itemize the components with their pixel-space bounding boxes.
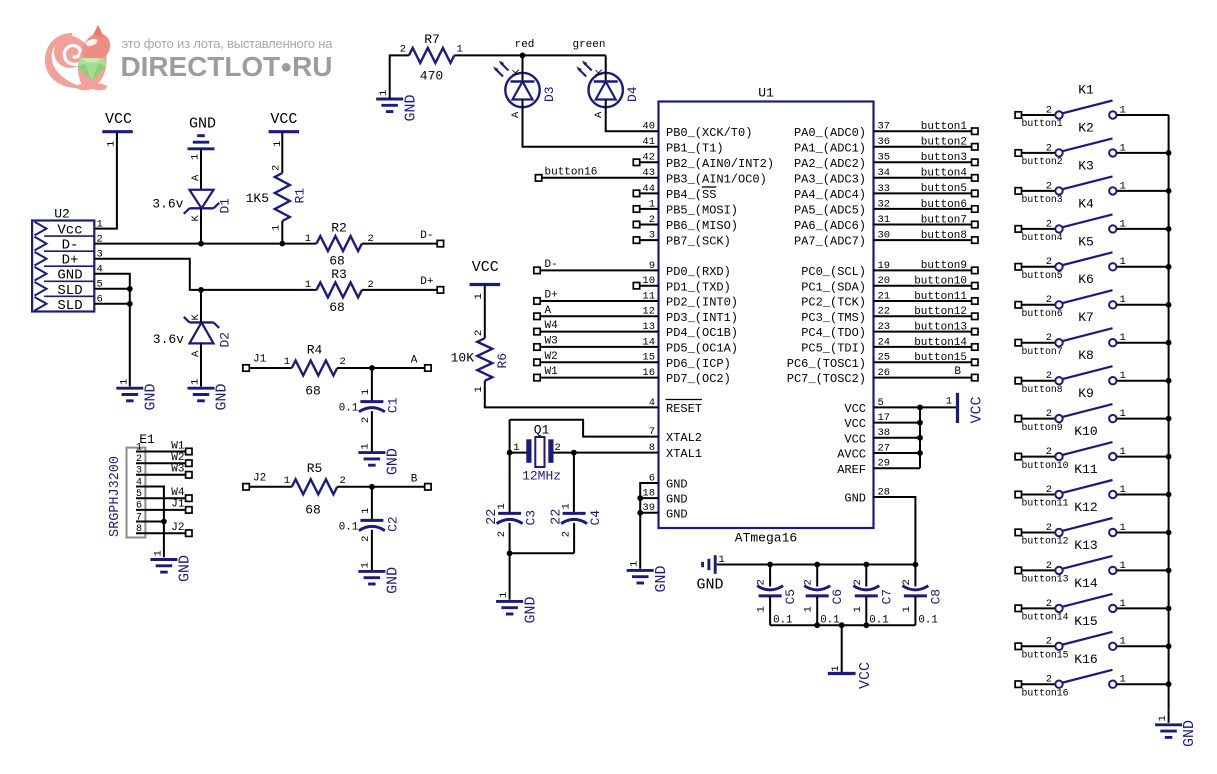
- svg-text:GND: GND: [696, 577, 723, 594]
- svg-text:button10: button10: [914, 276, 967, 288]
- wire node D- to U1 pin 9: [534, 259, 659, 274]
- svg-text:R5: R5: [307, 461, 323, 476]
- wire R3 to node D+: [362, 276, 444, 293]
- svg-text:Q1: Q1: [534, 423, 550, 438]
- wire E1 pin2 to node W2: [136, 452, 192, 466]
- svg-text:GND: GND: [844, 492, 866, 506]
- wire GND to D1 anode: [200, 149, 202, 190]
- svg-text:GND: GND: [523, 596, 540, 623]
- svg-text:R7: R7: [424, 32, 440, 47]
- svg-text:W1: W1: [171, 440, 185, 452]
- svg-text:K15: K15: [1074, 614, 1097, 629]
- svg-text:PD7_(OC2): PD7_(OC2): [666, 372, 731, 386]
- svg-text:GND: GND: [385, 448, 402, 475]
- wire node button3 from U1 pin 35: [874, 152, 979, 165]
- svg-text:PD0_(RXD): PD0_(RXD): [666, 265, 731, 279]
- svg-text:VCC: VCC: [969, 396, 986, 423]
- svg-text:K12: K12: [1074, 500, 1097, 515]
- svg-text:2: 2: [360, 417, 372, 423]
- svg-text:3.6v: 3.6v: [153, 332, 184, 347]
- svg-text:W3: W3: [171, 464, 184, 476]
- svg-text:D+: D+: [545, 290, 558, 302]
- svg-text:PD6_(ICP): PD6_(ICP): [666, 357, 731, 371]
- svg-text:PA3_(ADC3): PA3_(ADC3): [794, 172, 866, 186]
- switch K10 (button10): [1015, 424, 1169, 471]
- svg-text:C5: C5: [783, 589, 798, 605]
- svg-text:2: 2: [1046, 484, 1052, 496]
- svg-text:R6: R6: [495, 353, 510, 369]
- svg-text:A: A: [510, 111, 522, 118]
- op-amp U1 ATmega16 microcontroller box with pin names and numbers: [642, 86, 890, 546]
- svg-text:1: 1: [457, 43, 463, 55]
- svg-text:PA7_(ADC7): PA7_(ADC7): [794, 235, 866, 249]
- svg-text:1: 1: [305, 233, 311, 245]
- wire D+ to D2 cathode: [200, 290, 202, 323]
- wire U1 GND pins 6,18,39 to ground: [637, 483, 658, 569]
- svg-text:PA5_(ADC5): PA5_(ADC5): [794, 204, 866, 218]
- svg-text:W1: W1: [545, 366, 559, 378]
- wire E1 pin1 to node W1: [136, 440, 192, 454]
- switch K13 (button13): [1015, 538, 1169, 585]
- svg-text:K: K: [594, 69, 606, 76]
- svg-text:K: K: [511, 69, 523, 76]
- switch K2 (button2): [1015, 120, 1169, 167]
- wire unconnected stub at U1 pin 44: [633, 190, 658, 196]
- svg-text:PC6_(TOSC1): PC6_(TOSC1): [787, 357, 866, 371]
- svg-text:button5: button5: [921, 183, 967, 195]
- wire D3 cathode from red node: [522, 55, 524, 73]
- wire crystal to U1 XTAL1: [507, 450, 659, 456]
- svg-text:button14: button14: [1022, 612, 1069, 623]
- svg-text:button12: button12: [1022, 536, 1069, 547]
- svg-text:3.6v: 3.6v: [152, 197, 183, 212]
- svg-text:button4: button4: [1022, 232, 1063, 243]
- svg-text:K10: K10: [1074, 424, 1097, 439]
- svg-text:PC4_(TDO): PC4_(TDO): [801, 326, 866, 340]
- wire node button10 from U1 pin 20: [874, 276, 979, 289]
- switch K12 (button12): [1015, 500, 1169, 547]
- svg-text:PA2_(ADC2): PA2_(ADC2): [794, 157, 866, 171]
- wire U1 VCC/AVCC/AREF bus: [874, 405, 923, 469]
- svg-text:0.1: 0.1: [339, 403, 358, 415]
- wire node W4 to U1 pin 13: [534, 320, 659, 335]
- svg-text:22: 22: [485, 509, 500, 525]
- svg-text:W2: W2: [545, 351, 558, 363]
- svg-text:B: B: [411, 473, 418, 485]
- svg-text:2: 2: [1046, 598, 1052, 610]
- svg-text:D3: D3: [542, 86, 557, 102]
- svg-text:2: 2: [340, 475, 346, 487]
- svg-text:button15: button15: [914, 352, 967, 364]
- power VCC symbol (U2 pin1 net): [102, 111, 133, 147]
- svg-text:PD4_(OC1B): PD4_(OC1B): [666, 326, 738, 340]
- svg-text:R2: R2: [331, 221, 347, 236]
- switch K1 (button1): [1015, 83, 1169, 130]
- svg-text:PA1_(ADC1): PA1_(ADC1): [794, 141, 866, 155]
- svg-text:2: 2: [1046, 256, 1052, 268]
- svg-text:12MHz: 12MHz: [522, 469, 561, 484]
- svg-text:1: 1: [153, 550, 165, 556]
- svg-text:2: 2: [1046, 408, 1052, 420]
- svg-text:VCC: VCC: [844, 432, 866, 446]
- wire node button9 from U1 pin 19: [874, 260, 979, 273]
- svg-text:2: 2: [1046, 674, 1052, 686]
- svg-text:K7: K7: [1078, 310, 1094, 325]
- svg-text:GND: GND: [653, 565, 670, 592]
- wire node button8 from U1 pin 30: [874, 230, 979, 243]
- svg-text:1: 1: [1157, 715, 1169, 721]
- svg-text:2: 2: [1046, 104, 1052, 116]
- wire U2 GND/SLD net to ground: [94, 274, 132, 387]
- svg-text:VCC: VCC: [857, 662, 874, 689]
- switch K3 (button3): [1015, 158, 1169, 205]
- svg-text:A: A: [593, 111, 605, 118]
- wire D2 anode to ground: [200, 343, 202, 386]
- svg-text:K8: K8: [1078, 348, 1094, 363]
- svg-text:K9: K9: [1078, 386, 1094, 401]
- svg-text:2: 2: [1046, 636, 1052, 648]
- wire switch common bus to ground: [1166, 115, 1172, 723]
- LED D4 green: [576, 61, 640, 119]
- wire U1 pin28 to capacitor rail: [874, 497, 916, 565]
- capacitor C1 0.1: [339, 368, 401, 452]
- wire R2 to node D-: [362, 230, 444, 247]
- svg-text:C2: C2: [386, 516, 401, 532]
- power VCC symbol (R6 top): [470, 259, 501, 300]
- svg-text:button3: button3: [921, 152, 967, 164]
- wire node button16 to U1 PB3: [535, 167, 658, 181]
- svg-text:1: 1: [473, 293, 485, 299]
- wire XTAL2 step: [510, 420, 659, 437]
- svg-text:PB6_(MISO): PB6_(MISO): [666, 219, 738, 233]
- svg-text:K11: K11: [1074, 462, 1098, 477]
- svg-text:button1: button1: [921, 121, 968, 133]
- resistor R2 68: [305, 221, 374, 269]
- wire R7 pin2 to ground: [390, 55, 409, 99]
- svg-text:PB3_(AIN1/OC0): PB3_(AIN1/OC0): [666, 172, 767, 186]
- capacitor C3 22: [485, 503, 538, 553]
- svg-text:PC7_(TOSC2): PC7_(TOSC2): [787, 372, 866, 386]
- wire LED anode rail with nodes red and green: [454, 39, 605, 58]
- svg-text:1K5: 1K5: [246, 191, 269, 206]
- svg-text:R4: R4: [307, 342, 323, 357]
- svg-text:GND: GND: [1181, 720, 1198, 747]
- svg-text:1: 1: [360, 562, 372, 568]
- svg-text:C8: C8: [928, 589, 943, 605]
- ground symbol (switch bus): [1155, 715, 1198, 747]
- svg-text:GND: GND: [666, 493, 688, 507]
- svg-text:button5: button5: [1022, 270, 1063, 281]
- svg-text:2: 2: [1046, 370, 1052, 382]
- svg-text:0.1: 0.1: [918, 615, 937, 627]
- svg-text:2: 2: [1046, 218, 1052, 230]
- svg-text:VCC: VCC: [844, 417, 866, 431]
- svg-text:K16: K16: [1074, 652, 1097, 667]
- svg-text:VCC: VCC: [105, 111, 132, 128]
- switch K14 (button14): [1015, 576, 1169, 623]
- svg-text:PD3_(INT1): PD3_(INT1): [666, 311, 738, 325]
- svg-text:GND: GND: [214, 383, 231, 410]
- svg-text:C4: C4: [588, 510, 603, 526]
- wire E1 pin6 to node J1: [136, 499, 192, 513]
- LED D3 red: [493, 61, 557, 119]
- svg-text:PB4_(SS: PB4_(SS: [666, 188, 716, 202]
- svg-text:PC5_(TDI): PC5_(TDI): [801, 342, 866, 356]
- svg-text:D-: D-: [545, 259, 558, 271]
- connector E1 SRGPHJ3200: [108, 432, 155, 538]
- logo squirrel mascot: [45, 25, 110, 90]
- svg-text:1: 1: [360, 389, 372, 395]
- ground symbol (C2): [358, 562, 401, 594]
- switch K5 (button5): [1015, 234, 1169, 281]
- svg-text:GND: GND: [177, 555, 194, 582]
- wire node J1 to R4: [243, 354, 292, 372]
- crystal Q1 12MHz: [510, 423, 574, 484]
- wire cap bank top rail (GND): [717, 562, 919, 568]
- diode D1 zener 3.6v: [152, 174, 232, 222]
- svg-text:D-: D-: [420, 230, 433, 242]
- svg-text:SRGPHJ3200: SRGPHJ3200: [108, 456, 123, 537]
- svg-text:2: 2: [901, 579, 913, 585]
- wire node D+ to U1 pin 11: [534, 290, 659, 305]
- svg-text:SLD: SLD: [57, 298, 82, 314]
- svg-text:DIRECTLOT●RU: DIRECTLOT●RU: [121, 51, 333, 82]
- svg-text:1: 1: [560, 503, 572, 509]
- svg-text:button8: button8: [1022, 384, 1063, 395]
- wire U2 pin1 to VCC: [94, 132, 117, 229]
- svg-text:button12: button12: [914, 306, 967, 318]
- svg-text:1: 1: [803, 606, 815, 612]
- svg-text:button3: button3: [1022, 194, 1063, 205]
- svg-text:1: 1: [360, 508, 372, 514]
- svg-text:2: 2: [496, 531, 508, 537]
- svg-text:XTAL1: XTAL1: [666, 447, 702, 461]
- wire R5 to node B: [337, 473, 431, 490]
- wire node button5 from U1 pin 33: [874, 183, 979, 196]
- svg-text:W4: W4: [171, 487, 185, 499]
- svg-text:button9: button9: [1022, 422, 1063, 433]
- svg-text:2: 2: [271, 165, 283, 171]
- svg-text:W4: W4: [545, 320, 559, 332]
- switch K15 (button15): [1015, 614, 1169, 661]
- svg-text:J2: J2: [171, 522, 184, 534]
- svg-text:ATmega16: ATmega16: [735, 531, 797, 546]
- svg-text:2: 2: [1046, 294, 1052, 306]
- wire node W3 to U1 pin 14: [534, 335, 659, 350]
- svg-text:K4: K4: [1078, 196, 1094, 211]
- wire E1 pins 4,7 to ground: [136, 487, 167, 558]
- svg-text:PD5_(OC1A): PD5_(OC1A): [666, 342, 738, 356]
- svg-text:D1: D1: [218, 198, 233, 214]
- svg-text:GND: GND: [403, 94, 420, 121]
- wire node button7 from U1 pin 31: [874, 214, 979, 227]
- wire D4 anode to PB0: [606, 107, 659, 131]
- svg-text:VCC: VCC: [270, 111, 297, 128]
- svg-text:68: 68: [305, 502, 321, 517]
- svg-text:PA0_(ADC0): PA0_(ADC0): [794, 126, 866, 140]
- svg-text:button7: button7: [921, 214, 967, 226]
- svg-text:button2: button2: [921, 137, 967, 149]
- svg-text:C1: C1: [386, 397, 401, 413]
- svg-text:PB5_(MOSI): PB5_(MOSI): [666, 204, 738, 218]
- wire E1 pin5 to node W4: [136, 487, 192, 501]
- svg-text:1: 1: [190, 154, 202, 160]
- wire crystal right leg to C4: [573, 453, 575, 514]
- switch K9 (button9): [1015, 386, 1169, 433]
- svg-text:button9: button9: [921, 260, 967, 272]
- capacitor C7 0.1: [852, 565, 895, 627]
- svg-text:U1: U1: [758, 86, 774, 101]
- wire crystal left leg: [509, 420, 511, 514]
- ground symbol (C3/C4): [496, 592, 539, 624]
- svg-text:470: 470: [420, 69, 443, 84]
- svg-text:VCC: VCC: [844, 402, 866, 416]
- wire unconnected stub at U1 pin 1: [633, 206, 658, 212]
- svg-text:22: 22: [550, 509, 565, 525]
- wire node J2 to R5: [243, 472, 292, 490]
- svg-text:2: 2: [360, 536, 372, 542]
- svg-text:VCC: VCC: [472, 259, 499, 276]
- resistor R4 68: [284, 342, 346, 398]
- svg-text:PA6_(ADC6): PA6_(ADC6): [794, 219, 866, 233]
- ground symbol above D1 (inverted): [188, 116, 217, 161]
- svg-text:PB1_(T1): PB1_(T1): [666, 141, 724, 155]
- svg-text:button11: button11: [914, 291, 967, 303]
- svg-text:button6: button6: [921, 199, 967, 211]
- wire unconnected stub at U1 pin 2: [633, 221, 658, 227]
- wire E1 pin3 to node W3: [136, 464, 192, 478]
- svg-text:W2: W2: [171, 452, 184, 464]
- ground symbol (U2 shield net): [116, 379, 159, 411]
- ground symbol (D2): [188, 379, 231, 411]
- svg-text:2: 2: [1046, 142, 1052, 154]
- svg-text:2: 2: [1046, 560, 1052, 572]
- wire node button4 from U1 pin 34: [874, 168, 979, 181]
- svg-text:C7: C7: [879, 589, 894, 605]
- svg-text:green: green: [572, 39, 605, 51]
- resistor R1 1K5: [246, 132, 308, 244]
- svg-text:68: 68: [329, 300, 345, 315]
- wire R4 to node A: [337, 355, 431, 372]
- svg-text:R3: R3: [331, 267, 347, 282]
- svg-text:button4: button4: [921, 168, 968, 180]
- svg-text:68: 68: [305, 384, 321, 399]
- svg-text:2: 2: [1046, 446, 1052, 458]
- capacitor C4 22: [550, 503, 604, 553]
- svg-text:1: 1: [901, 606, 913, 612]
- svg-text:PC1_(SDA): PC1_(SDA): [801, 280, 866, 294]
- wire node B from U1 pin 26: [874, 366, 979, 381]
- svg-text:C6: C6: [830, 589, 845, 605]
- svg-text:2: 2: [473, 330, 485, 336]
- resistor R3 68: [305, 267, 374, 315]
- wire D1 cathode to D- net: [200, 208, 202, 243]
- wire E1 pin8 to node J2: [136, 522, 192, 536]
- wire unconnected stub at U1 pin 3: [633, 237, 658, 243]
- svg-text:B: B: [954, 366, 961, 378]
- svg-text:1: 1: [271, 225, 283, 231]
- ground symbol (R7): [376, 90, 419, 122]
- svg-text:W3: W3: [545, 335, 558, 347]
- svg-text:XTAL2: XTAL2: [666, 431, 702, 445]
- svg-text:1: 1: [473, 386, 485, 392]
- svg-text:1: 1: [378, 90, 390, 96]
- svg-text:D+: D+: [420, 276, 433, 288]
- svg-text:PB7_(SCK): PB7_(SCK): [666, 235, 731, 249]
- svg-text:A: A: [545, 305, 552, 317]
- power VCC symbol (U1 supply): [920, 393, 986, 424]
- svg-text:J2: J2: [253, 472, 266, 484]
- capacitor C5 0.1: [756, 565, 799, 627]
- wire node button6 from U1 pin 32: [874, 199, 979, 212]
- wire R6 to U1 RESET: [485, 381, 659, 408]
- svg-text:D2: D2: [218, 332, 233, 348]
- svg-text:2: 2: [340, 356, 346, 368]
- svg-text:button6: button6: [1022, 308, 1063, 319]
- switch K7 (button7): [1015, 310, 1169, 357]
- svg-text:PB0_(XCK/T0): PB0_(XCK/T0): [666, 126, 752, 140]
- svg-text:J1: J1: [253, 354, 267, 366]
- svg-text:2: 2: [852, 579, 864, 585]
- svg-text:K3: K3: [1078, 158, 1094, 173]
- switch K6 (button6): [1015, 272, 1169, 319]
- wire node button1 from U1 pin 37: [874, 121, 979, 134]
- svg-text:2: 2: [756, 579, 768, 585]
- wire node button11 from U1 pin 21: [874, 291, 979, 304]
- svg-text:K5: K5: [1078, 234, 1094, 249]
- svg-text:1: 1: [629, 561, 641, 567]
- svg-text:2: 2: [560, 531, 572, 537]
- svg-text:1: 1: [119, 379, 131, 385]
- ground symbol (cap bank rail): [696, 554, 724, 594]
- svg-text:PD1_(TXD): PD1_(TXD): [666, 280, 731, 294]
- svg-text:2: 2: [1046, 522, 1052, 534]
- svg-text:button16: button16: [545, 167, 598, 179]
- svg-text:AREF: AREF: [837, 463, 866, 477]
- wire node A to U1 pin 12: [534, 305, 659, 320]
- svg-text:J1: J1: [171, 499, 185, 511]
- svg-text:1: 1: [946, 396, 952, 408]
- svg-text:1: 1: [496, 503, 508, 509]
- svg-text:PC2_(TCK): PC2_(TCK): [801, 296, 866, 310]
- svg-text:D4: D4: [625, 86, 640, 102]
- svg-text:A: A: [411, 355, 418, 367]
- wire node button14 from U1 pin 24: [874, 337, 979, 350]
- capacitor C6 0.1: [803, 565, 846, 627]
- svg-text:1: 1: [513, 442, 519, 454]
- svg-text:2: 2: [1046, 180, 1052, 192]
- svg-text:GND: GND: [143, 383, 160, 410]
- svg-text:GND: GND: [189, 116, 216, 133]
- svg-text:1: 1: [106, 141, 118, 147]
- svg-text:2: 2: [1046, 332, 1052, 344]
- svg-text:button7: button7: [1022, 346, 1063, 357]
- diode D2 zener 3.6v: [153, 314, 233, 358]
- wire node button12 from U1 pin 22: [874, 306, 979, 319]
- wire unconnected stub at U1 pin 42: [633, 159, 658, 165]
- svg-text:K2: K2: [1078, 120, 1094, 135]
- svg-text:button10: button10: [1022, 460, 1069, 471]
- svg-text:A: A: [190, 174, 202, 181]
- wire D4 cathode from green node: [605, 55, 607, 73]
- svg-text:button8: button8: [921, 230, 967, 242]
- ground symbol (C1): [358, 443, 401, 475]
- svg-text:GND: GND: [666, 507, 688, 521]
- svg-text:button11: button11: [1022, 498, 1069, 509]
- wire node W2 to U1 pin 15: [534, 351, 659, 366]
- power VCC symbol (cap bank, inverted): [828, 662, 874, 689]
- switch K16 (button16): [1015, 652, 1169, 699]
